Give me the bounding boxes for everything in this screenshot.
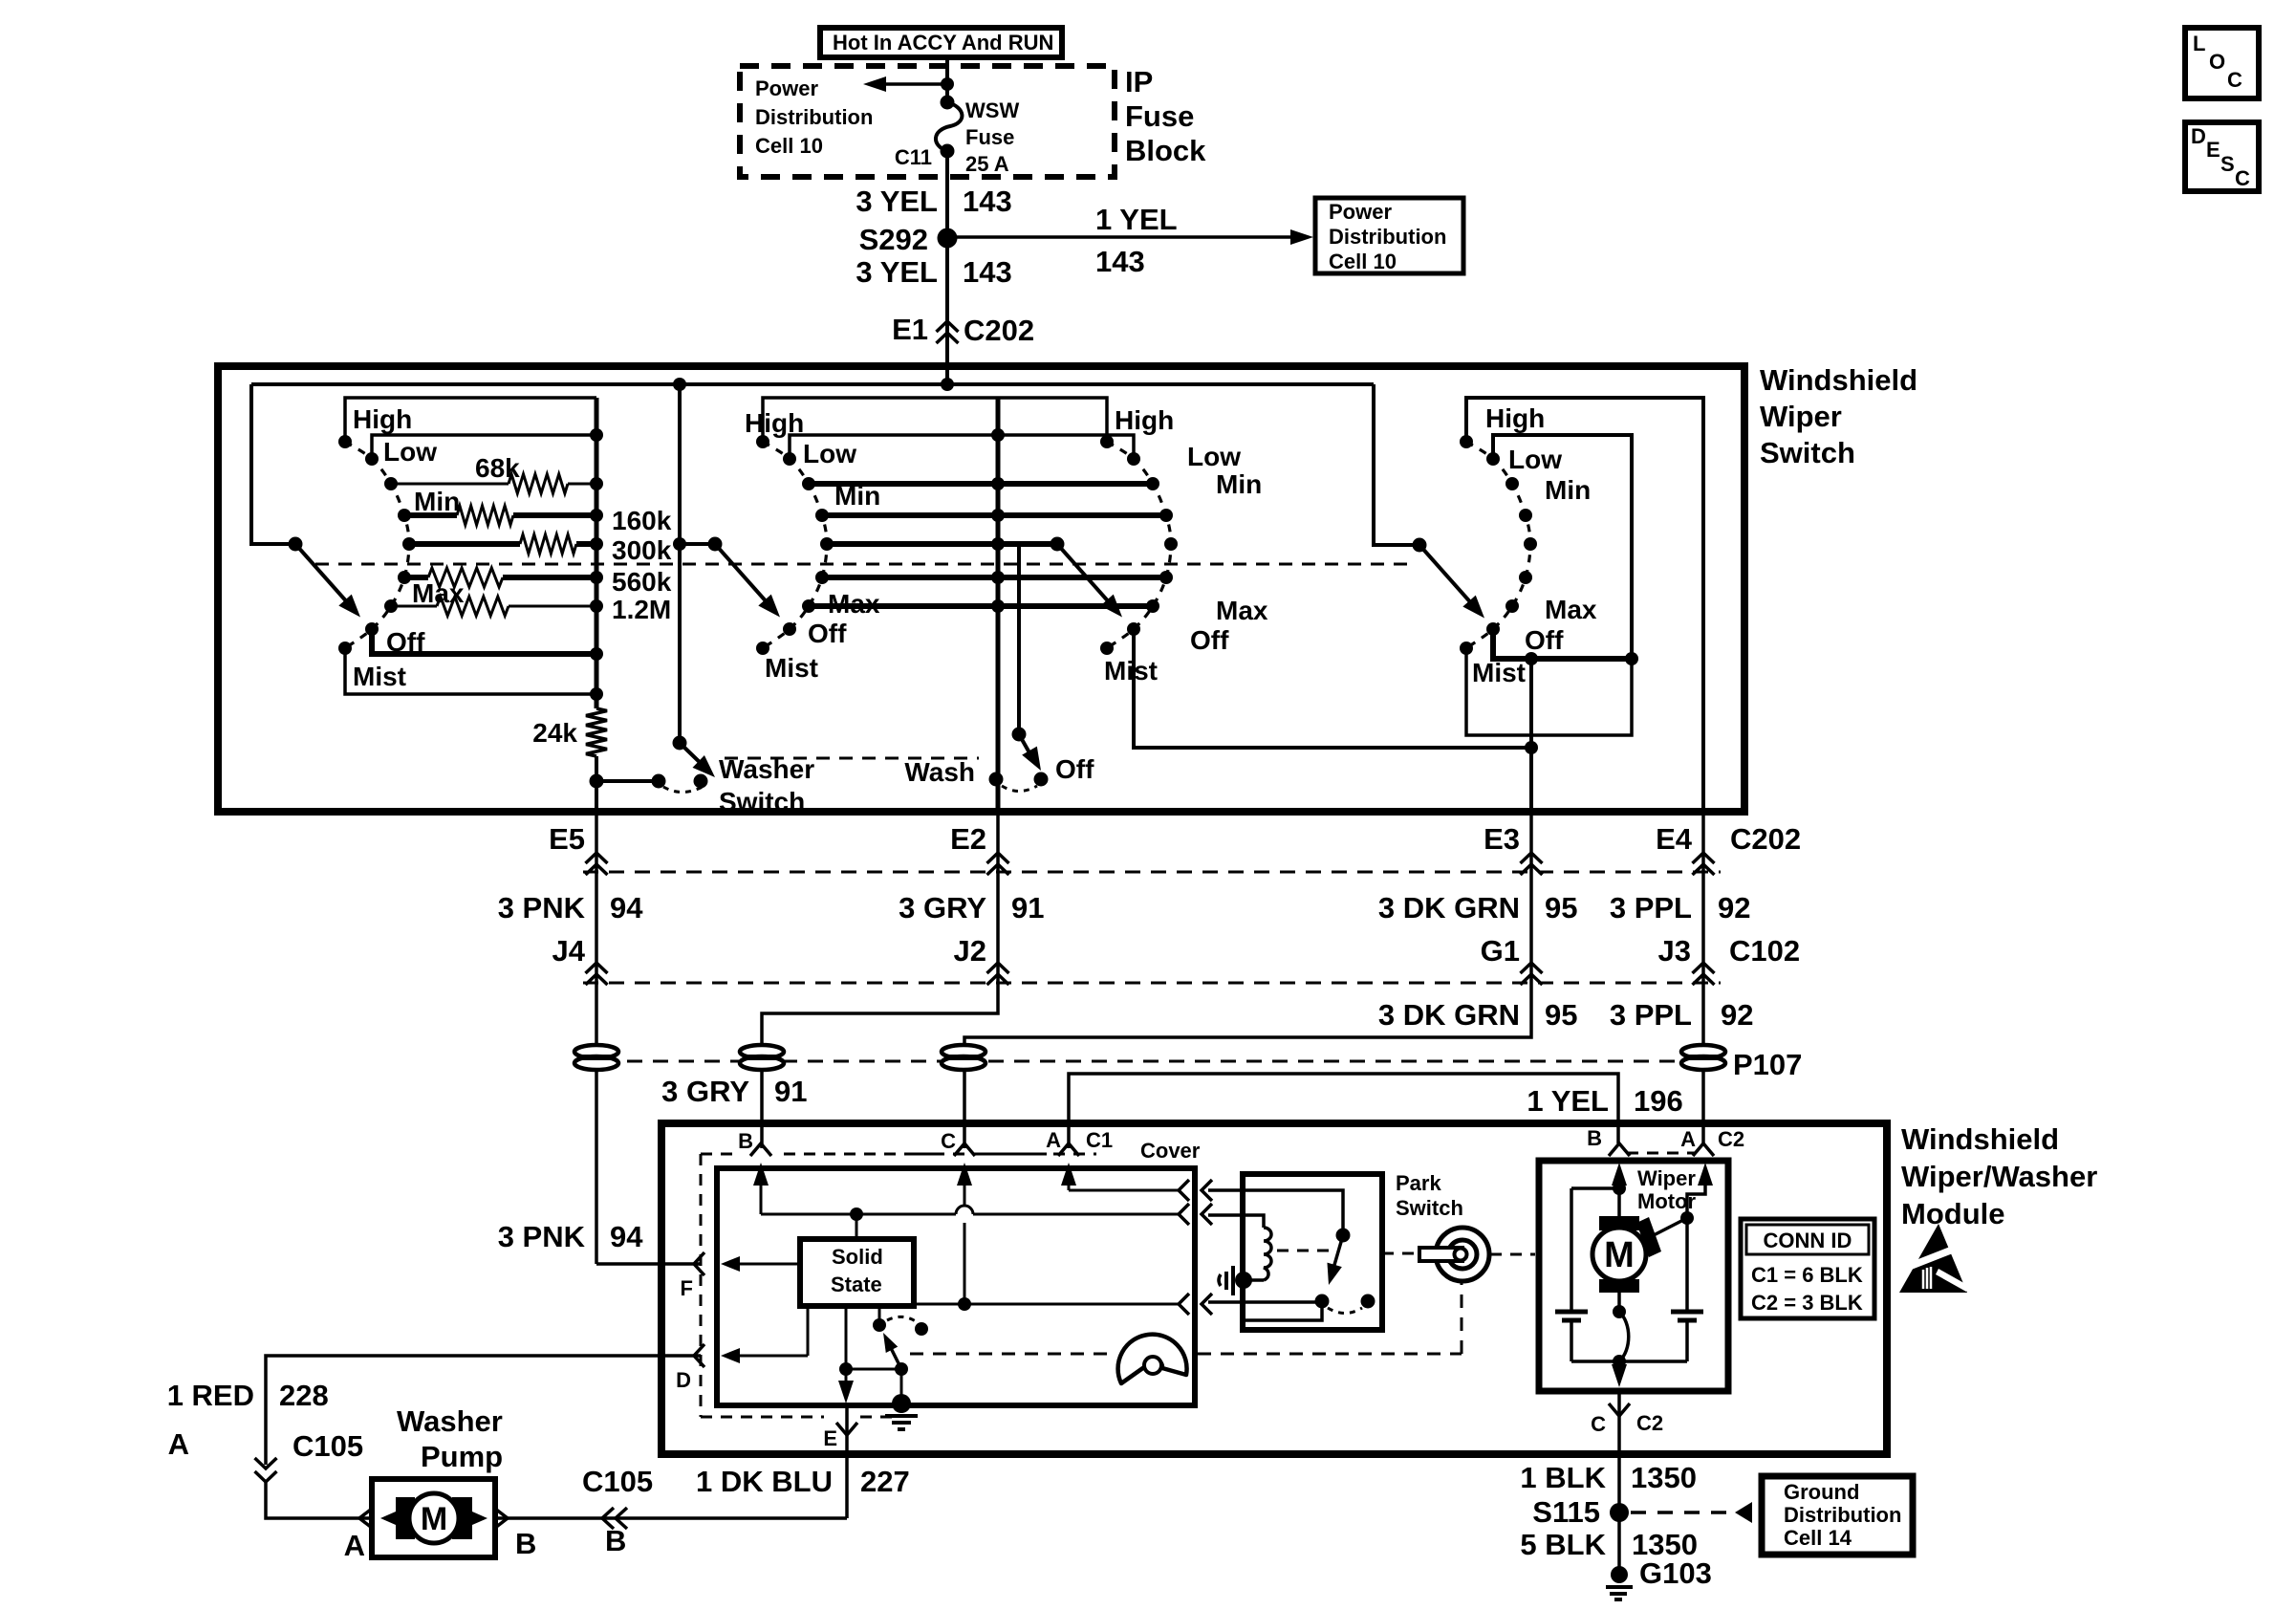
svg-text:High: High bbox=[745, 408, 804, 438]
svg-text:25 A: 25 A bbox=[965, 152, 1009, 176]
svg-text:Mist: Mist bbox=[765, 653, 818, 683]
svg-text:Cell 14: Cell 14 bbox=[1784, 1526, 1852, 1550]
svg-text:J3: J3 bbox=[1658, 934, 1691, 968]
svg-text:Fuse: Fuse bbox=[965, 125, 1014, 149]
wire Mist frame s4 bbox=[1466, 648, 1632, 735]
svg-text:1.2M: 1.2M bbox=[612, 595, 671, 624]
svg-text:C: C bbox=[2235, 166, 2250, 190]
pump terminal A bbox=[344, 1509, 372, 1562]
label WSW Fuse 25 A bbox=[965, 98, 1019, 176]
svg-text:Windshield: Windshield bbox=[1760, 363, 1917, 397]
wire 3 PNK into module pin F bbox=[596, 1262, 701, 1266]
connector G1 bbox=[1481, 934, 1543, 985]
svg-text:Hot In ACCY And RUN: Hot In ACCY And RUN bbox=[833, 31, 1053, 54]
wash/off switch bbox=[989, 544, 1049, 792]
svg-text:E: E bbox=[2206, 138, 2220, 162]
node S292 bbox=[859, 223, 958, 256]
svg-text:Mist: Mist bbox=[1104, 656, 1158, 685]
wire arrow to Power Distribution (left) bbox=[863, 76, 947, 92]
Windshield Wiper/Washer Module box bbox=[661, 1123, 1887, 1454]
svg-text:95: 95 bbox=[1545, 998, 1577, 1032]
wire pin C internal bbox=[957, 1163, 972, 1311]
wire motor right cap branch bbox=[1671, 1218, 1703, 1361]
wire label 3 DK GRN 95 (lower) bbox=[1378, 998, 1578, 1032]
park switch contacts bbox=[1245, 1295, 1375, 1321]
svg-text:A: A bbox=[344, 1529, 365, 1562]
connector E2 bbox=[950, 822, 1008, 875]
svg-text:Ground: Ground bbox=[1784, 1480, 1859, 1504]
svg-text:Off: Off bbox=[808, 619, 847, 648]
wire bus E2 bbox=[996, 398, 1001, 812]
svg-text:M: M bbox=[1604, 1235, 1635, 1275]
wire motor bottom rail bbox=[1571, 1355, 1687, 1368]
wire label 1 YEL 196 bbox=[1527, 1084, 1682, 1118]
wire E1 into switch bbox=[945, 344, 949, 384]
resistor 24k bbox=[586, 708, 607, 756]
wire Off frame s1 bbox=[372, 629, 596, 654]
svg-text:1350: 1350 bbox=[1631, 1461, 1697, 1494]
svg-text:95: 95 bbox=[1545, 891, 1577, 925]
wire rail leg section 1 bbox=[251, 384, 295, 544]
pump terminal B bbox=[495, 1509, 536, 1560]
labels section 4 positions bbox=[1472, 403, 1597, 687]
svg-text:3 GRY: 3 GRY bbox=[899, 891, 986, 925]
svg-text:Block: Block bbox=[1125, 134, 1206, 167]
switch section 1 position arc bbox=[345, 442, 409, 648]
ground G103 bbox=[1606, 1556, 1712, 1599]
wire label 3 DK GRN 95 bbox=[1378, 891, 1578, 925]
svg-text:C2: C2 bbox=[1636, 1411, 1663, 1435]
pin B C2 bbox=[1587, 1126, 1630, 1156]
svg-text:Max: Max bbox=[412, 578, 465, 608]
label Washer Pump bbox=[397, 1404, 503, 1473]
wire Low s1 bbox=[372, 435, 596, 459]
wire label 1 BLK 1350 bbox=[1520, 1461, 1697, 1494]
svg-text:S: S bbox=[2220, 152, 2235, 176]
svg-text:IP: IP bbox=[1125, 65, 1153, 98]
grommet J2 wire bbox=[740, 1045, 784, 1070]
svg-text:3 YEL: 3 YEL bbox=[856, 185, 938, 218]
wire rail leg section 4 bbox=[1374, 384, 1419, 545]
node S115 bbox=[1532, 1495, 1629, 1529]
svg-text:High: High bbox=[1115, 405, 1174, 435]
DESC box bbox=[2185, 122, 2259, 191]
park switch arm bbox=[1327, 1229, 1350, 1286]
wire E5 drop bbox=[595, 812, 598, 1264]
labels section 2 positions bbox=[745, 408, 880, 683]
svg-text:Fuse: Fuse bbox=[1125, 99, 1194, 133]
mechanical dashed link to park switch bbox=[910, 1283, 1462, 1354]
svg-text:J4: J4 bbox=[552, 934, 586, 968]
Windshield Wiper Switch box bbox=[218, 366, 1744, 812]
svg-text:228: 228 bbox=[279, 1379, 329, 1412]
ESD warning symbol bbox=[1899, 1224, 1969, 1293]
svg-text:160k: 160k bbox=[612, 506, 672, 535]
wire 1 YEL 196 (pin A C1 to pin B C2) bbox=[1069, 1074, 1618, 1148]
wire motor output to pin C bbox=[1612, 1361, 1627, 1387]
svg-text:94: 94 bbox=[610, 1220, 643, 1253]
svg-text:94: 94 bbox=[610, 891, 643, 925]
svg-text:C105: C105 bbox=[582, 1465, 653, 1498]
svg-text:C202: C202 bbox=[964, 314, 1034, 347]
connector J2 bbox=[954, 934, 1009, 985]
svg-text:24k: 24k bbox=[532, 718, 577, 748]
wire row 604 s2-s3 bbox=[821, 575, 1166, 580]
park switch shaft bbox=[1382, 1228, 1535, 1281]
svg-text:C: C bbox=[1591, 1412, 1606, 1436]
svg-text:Max: Max bbox=[1216, 596, 1268, 625]
svg-text:G103: G103 bbox=[1639, 1556, 1712, 1590]
solid state box bbox=[800, 1239, 914, 1306]
svg-text:D: D bbox=[676, 1368, 691, 1392]
wire motor left branch bbox=[1555, 1188, 1619, 1361]
svg-text:Max: Max bbox=[1545, 595, 1597, 624]
pin C C2 bbox=[1591, 1403, 1663, 1436]
wire 1 RED 228 from pin D bbox=[266, 1356, 701, 1465]
svg-text:C102: C102 bbox=[1729, 934, 1800, 968]
svg-text:Module: Module bbox=[1901, 1197, 2005, 1230]
labels resistor values bbox=[612, 506, 672, 624]
switch section 2 position arc bbox=[763, 442, 827, 648]
svg-text:C1 = 6 BLK: C1 = 6 BLK bbox=[1751, 1263, 1863, 1287]
connector E1 C202 bbox=[892, 313, 1034, 347]
wire motor right branch to pin A bbox=[1680, 1163, 1713, 1225]
svg-text:Off: Off bbox=[1055, 754, 1094, 784]
svg-text:300k: 300k bbox=[612, 535, 672, 565]
svg-text:High: High bbox=[1485, 403, 1545, 433]
wire label 3 YEL 143 lower bbox=[856, 255, 1011, 289]
svg-text:Wiper: Wiper bbox=[1760, 400, 1842, 433]
svg-text:Switch: Switch bbox=[719, 787, 805, 816]
svg-text:Min: Min bbox=[1545, 475, 1591, 505]
svg-text:E3: E3 bbox=[1484, 822, 1520, 856]
svg-text:WSW: WSW bbox=[965, 98, 1019, 122]
mechanical dashed link washer to wash/off bbox=[725, 757, 979, 760]
svg-text:A: A bbox=[1680, 1127, 1696, 1151]
svg-text:E1: E1 bbox=[892, 313, 928, 346]
label Park Switch bbox=[1396, 1171, 1463, 1220]
svg-text:91: 91 bbox=[774, 1075, 807, 1108]
svg-text:Power: Power bbox=[755, 76, 818, 100]
park switch box bbox=[1243, 1174, 1382, 1330]
wire label 5 BLK 1350 bbox=[1520, 1528, 1698, 1561]
svg-text:O: O bbox=[2209, 50, 2225, 74]
Power Distribution Cell 10 box bbox=[1315, 198, 1463, 273]
svg-text:143: 143 bbox=[963, 185, 1012, 218]
relay contact switch inside cover bbox=[873, 1306, 928, 1369]
svg-text:C: C bbox=[941, 1129, 956, 1153]
svg-text:Switch: Switch bbox=[1760, 436, 1855, 469]
svg-text:92: 92 bbox=[1721, 998, 1753, 1032]
wire Off drop s3 bbox=[1134, 629, 1531, 748]
resistor 560k row bbox=[406, 568, 596, 587]
svg-text:Wiper: Wiper bbox=[1637, 1166, 1696, 1190]
node junction at fuse feed bbox=[941, 77, 954, 91]
svg-text:CONN ID: CONN ID bbox=[1764, 1229, 1852, 1252]
svg-text:Off: Off bbox=[1525, 625, 1564, 655]
resistor 68k row bbox=[393, 474, 596, 493]
svg-text:J2: J2 bbox=[954, 934, 986, 968]
wire pump B to C105 bbox=[495, 1516, 847, 1520]
switch section 1 wiper arm bbox=[289, 537, 303, 552]
svg-text:Mist: Mist bbox=[353, 662, 406, 691]
svg-text:C2: C2 bbox=[1718, 1127, 1744, 1151]
wire solid state to pin D bbox=[721, 1306, 808, 1363]
connector J3 C102 bbox=[1658, 934, 1801, 985]
pin A C1 bbox=[1046, 1128, 1079, 1156]
svg-text:Low: Low bbox=[383, 437, 437, 467]
svg-text:Distribution: Distribution bbox=[1329, 225, 1446, 249]
fuse label box "Hot In ACCY And RUN" bbox=[820, 28, 1062, 57]
wire label 1 YEL 143 bbox=[1095, 203, 1178, 278]
svg-text:C: C bbox=[2227, 68, 2242, 92]
switch section 4 wiper arm bbox=[1413, 538, 1427, 553]
svg-text:S115: S115 bbox=[1532, 1495, 1600, 1529]
svg-text:C202: C202 bbox=[1730, 822, 1801, 856]
wire pin E to C105 bbox=[845, 1405, 849, 1518]
svg-text:3 PPL: 3 PPL bbox=[1610, 998, 1692, 1032]
wire E3 drop bbox=[964, 812, 1531, 1148]
wire pin B internal bbox=[753, 1163, 1179, 1214]
svg-text:Power: Power bbox=[1329, 200, 1392, 224]
wire solid state to pin F bbox=[721, 1256, 800, 1272]
wire E2 drop bbox=[762, 812, 998, 1148]
wire motor C to ground bbox=[1617, 1391, 1621, 1575]
label Windshield Wiper Switch bbox=[1760, 363, 1917, 469]
svg-text:3 PNK: 3 PNK bbox=[498, 891, 586, 925]
svg-text:3 YEL: 3 YEL bbox=[856, 255, 938, 289]
svg-text:1 BLK: 1 BLK bbox=[1520, 1461, 1606, 1494]
svg-text:3 PNK: 3 PNK bbox=[498, 1220, 586, 1253]
wire row 506 s2-s3 bbox=[809, 481, 1153, 487]
svg-text:Wash: Wash bbox=[904, 757, 975, 787]
wire solid state right to park contact bbox=[914, 1303, 1179, 1306]
node rail junctions bbox=[673, 378, 686, 391]
label IP Fuse Block bbox=[1125, 65, 1206, 167]
label Washer Switch bbox=[719, 754, 814, 816]
svg-text:3 PPL: 3 PPL bbox=[1610, 891, 1692, 925]
svg-text:Max: Max bbox=[828, 589, 880, 619]
connector C1 dashed boundary bbox=[701, 1154, 1096, 1417]
svg-text:5 BLK: 5 BLK bbox=[1520, 1528, 1606, 1561]
svg-text:Cell 10: Cell 10 bbox=[755, 134, 823, 158]
wire Off row s4 bbox=[1493, 629, 1632, 659]
svg-text:Off: Off bbox=[386, 627, 425, 657]
svg-text:560k: 560k bbox=[612, 567, 672, 597]
svg-text:Pump: Pump bbox=[421, 1440, 503, 1473]
svg-text:Cell 10: Cell 10 bbox=[1329, 250, 1397, 273]
svg-text:1 RED: 1 RED bbox=[167, 1379, 254, 1412]
svg-text:Solid: Solid bbox=[832, 1245, 883, 1269]
buzzer contact bbox=[1219, 1266, 1252, 1295]
wire pin A internal bbox=[1061, 1163, 1179, 1190]
grommet pass-through P107 row bbox=[575, 1060, 1725, 1063]
mechanical link dashed line bbox=[315, 563, 1413, 566]
svg-text:E2: E2 bbox=[950, 822, 986, 856]
svg-text:3 DK GRN: 3 DK GRN bbox=[1378, 891, 1520, 925]
svg-text:92: 92 bbox=[1718, 891, 1750, 925]
cover box bbox=[717, 1168, 1195, 1405]
svg-text:227: 227 bbox=[860, 1465, 910, 1498]
wire label 3 GRY 91 (lower) bbox=[661, 1075, 807, 1108]
svg-text:Mist: Mist bbox=[1472, 658, 1526, 687]
resistor 1.2M row bbox=[393, 597, 596, 616]
label Wiper Motor bbox=[1637, 1166, 1697, 1213]
connector C105 B bbox=[582, 1465, 653, 1557]
grommet E5 wire bbox=[574, 1045, 618, 1070]
switch section 3 position arc bbox=[1107, 442, 1171, 648]
svg-text:State: State bbox=[831, 1273, 882, 1296]
Ground Distribution Cell 14 box bbox=[1762, 1476, 1913, 1555]
svg-text:196: 196 bbox=[1634, 1084, 1683, 1118]
wire row 539 s2-s3 bbox=[821, 512, 1166, 518]
svg-text:Park: Park bbox=[1396, 1171, 1441, 1195]
connector line C102 dashed bbox=[583, 982, 1721, 985]
svg-text:143: 143 bbox=[1095, 245, 1145, 278]
wire High frame s1 bbox=[345, 398, 596, 442]
wire label 3 YEL 143 bbox=[856, 185, 1011, 218]
park switch internal dashed link bbox=[1277, 1250, 1334, 1252]
svg-text:Distribution: Distribution bbox=[755, 105, 873, 129]
motor brush pointer bbox=[1636, 1217, 1687, 1257]
pin F terminal bbox=[681, 1252, 704, 1300]
labels section 1 positions bbox=[353, 404, 465, 691]
label Power Distribution Cell 10 (fuse block) bbox=[755, 76, 873, 158]
wire supply rail bbox=[251, 382, 1374, 386]
connector J4 bbox=[552, 934, 608, 985]
svg-text:Min: Min bbox=[1216, 469, 1262, 499]
wire Low frame s4 bbox=[1493, 435, 1632, 659]
svg-text:3 DK GRN: 3 DK GRN bbox=[1378, 998, 1520, 1032]
svg-text:High: High bbox=[353, 404, 412, 434]
svg-text:C105: C105 bbox=[292, 1429, 363, 1463]
svg-text:Off: Off bbox=[1190, 625, 1229, 655]
washer pump box bbox=[372, 1479, 495, 1557]
svg-text:Washer: Washer bbox=[397, 1404, 503, 1438]
wire S292 branch to Power Distribution bbox=[947, 229, 1313, 245]
wire label 3 GRY 91 bbox=[899, 891, 1044, 925]
svg-text:Low: Low bbox=[803, 439, 856, 468]
svg-text:E4: E4 bbox=[1656, 822, 1693, 856]
wire label 3 PNK 94 bbox=[498, 891, 644, 925]
wire dashed to ground distribution bbox=[1631, 1502, 1752, 1523]
svg-text:S292: S292 bbox=[859, 223, 928, 256]
svg-text:143: 143 bbox=[963, 255, 1012, 289]
wire 24k to washer switch contact bbox=[590, 756, 660, 812]
wire label 3 PPL 92 bbox=[1610, 891, 1751, 925]
svg-text:B: B bbox=[1587, 1126, 1602, 1150]
svg-text:91: 91 bbox=[1011, 891, 1044, 925]
connector E5 bbox=[549, 822, 607, 875]
washer switch bbox=[652, 736, 716, 793]
connector E3 bbox=[1484, 822, 1542, 875]
pin C C1 bbox=[941, 1129, 975, 1156]
connector A C105 bbox=[168, 1427, 364, 1482]
wire High frame s4 to E4 bbox=[1466, 398, 1703, 812]
wire Mist frame s1 bbox=[345, 648, 596, 694]
LOC box bbox=[2185, 28, 2259, 98]
connector C2 dashed segment bbox=[1627, 1152, 1696, 1155]
resistor 160k row bbox=[406, 506, 596, 525]
svg-text:C2 = 3 BLK: C2 = 3 BLK bbox=[1751, 1291, 1863, 1315]
wire rail leg section 2 / washer switch feed bbox=[678, 384, 682, 743]
svg-text:B: B bbox=[515, 1527, 536, 1560]
svg-text:68k: 68k bbox=[475, 453, 520, 483]
svg-text:E: E bbox=[823, 1426, 837, 1450]
wire cover to park switch coil bbox=[1208, 1215, 1264, 1228]
wire motor feed B bbox=[1612, 1163, 1627, 1219]
wire row 569 s2 to bus bbox=[827, 541, 1057, 547]
svg-text:F: F bbox=[681, 1276, 693, 1300]
svg-text:D: D bbox=[2191, 124, 2206, 148]
pin D terminal bbox=[676, 1344, 704, 1392]
resistor 300k row bbox=[411, 534, 596, 554]
wire solid state top feed bbox=[856, 1214, 858, 1239]
svg-text:1 DK BLU: 1 DK BLU bbox=[696, 1465, 833, 1498]
wiper motor box bbox=[1539, 1161, 1728, 1391]
svg-text:Min: Min bbox=[414, 487, 460, 516]
washer pump motor bbox=[380, 1493, 487, 1543]
pin B C1 bbox=[738, 1129, 771, 1156]
wire fuse to S292 to E1 bbox=[945, 151, 949, 344]
wire label 3 PNK 94 (lower) bbox=[498, 1220, 644, 1253]
CONN ID box bbox=[1741, 1219, 1874, 1318]
svg-text:Windshield: Windshield bbox=[1901, 1122, 2059, 1156]
svg-text:Low: Low bbox=[1508, 445, 1562, 474]
svg-text:Switch: Switch bbox=[1396, 1196, 1463, 1220]
switch section 3 wiper arm bbox=[1051, 537, 1065, 552]
wire solid state output to pin E bbox=[838, 1306, 908, 1403]
wire label 3 PPL 92 (lower) bbox=[1610, 998, 1754, 1032]
wire to washer pump bbox=[266, 1482, 372, 1518]
wire High frame s3 bbox=[998, 398, 1107, 442]
labels section 3 positions bbox=[1104, 405, 1268, 685]
wire cover to park switch arm bbox=[1208, 1190, 1343, 1235]
svg-text:A: A bbox=[1046, 1128, 1061, 1152]
svg-text:C1: C1 bbox=[1086, 1128, 1113, 1152]
label Windshield Wiper/Washer Module bbox=[1901, 1122, 2097, 1230]
svg-text:P107: P107 bbox=[1733, 1048, 1802, 1081]
pin E connector bbox=[823, 1423, 857, 1450]
wire High frame s2 bbox=[763, 398, 998, 442]
svg-text:Low: Low bbox=[1187, 442, 1241, 471]
svg-text:3 GRY: 3 GRY bbox=[661, 1075, 749, 1108]
park switch coil bbox=[1246, 1228, 1271, 1280]
motor armature loop bbox=[1613, 1293, 1629, 1361]
ground inside module bbox=[885, 1369, 918, 1429]
wire E4 drop bbox=[1701, 812, 1705, 1143]
wire bus E5 (section 1) bbox=[595, 398, 599, 708]
connector line C202 dashed bbox=[583, 871, 1721, 874]
pin A C2 bbox=[1680, 1127, 1714, 1156]
wire E3 drop inside box bbox=[1529, 659, 1533, 812]
wire row 634 s2-s3 bbox=[809, 603, 1153, 609]
svg-text:C11: C11 bbox=[895, 145, 932, 169]
svg-text:B: B bbox=[605, 1524, 626, 1557]
svg-text:Cover: Cover bbox=[1140, 1139, 1201, 1163]
svg-text:1 YEL: 1 YEL bbox=[1095, 203, 1178, 236]
motor M symbol bbox=[1592, 1216, 1646, 1293]
svg-text:A: A bbox=[168, 1427, 189, 1461]
cam symbol bbox=[1118, 1335, 1187, 1383]
svg-text:L: L bbox=[2193, 32, 2205, 55]
svg-text:B: B bbox=[738, 1129, 753, 1153]
grommet P107 bbox=[1681, 1045, 1725, 1070]
grommet G1 wire bbox=[942, 1045, 986, 1070]
wire label 1 DK BLU 227 bbox=[696, 1465, 910, 1498]
connector E4 C202 bbox=[1656, 822, 1801, 875]
svg-text:E5: E5 bbox=[549, 822, 585, 856]
